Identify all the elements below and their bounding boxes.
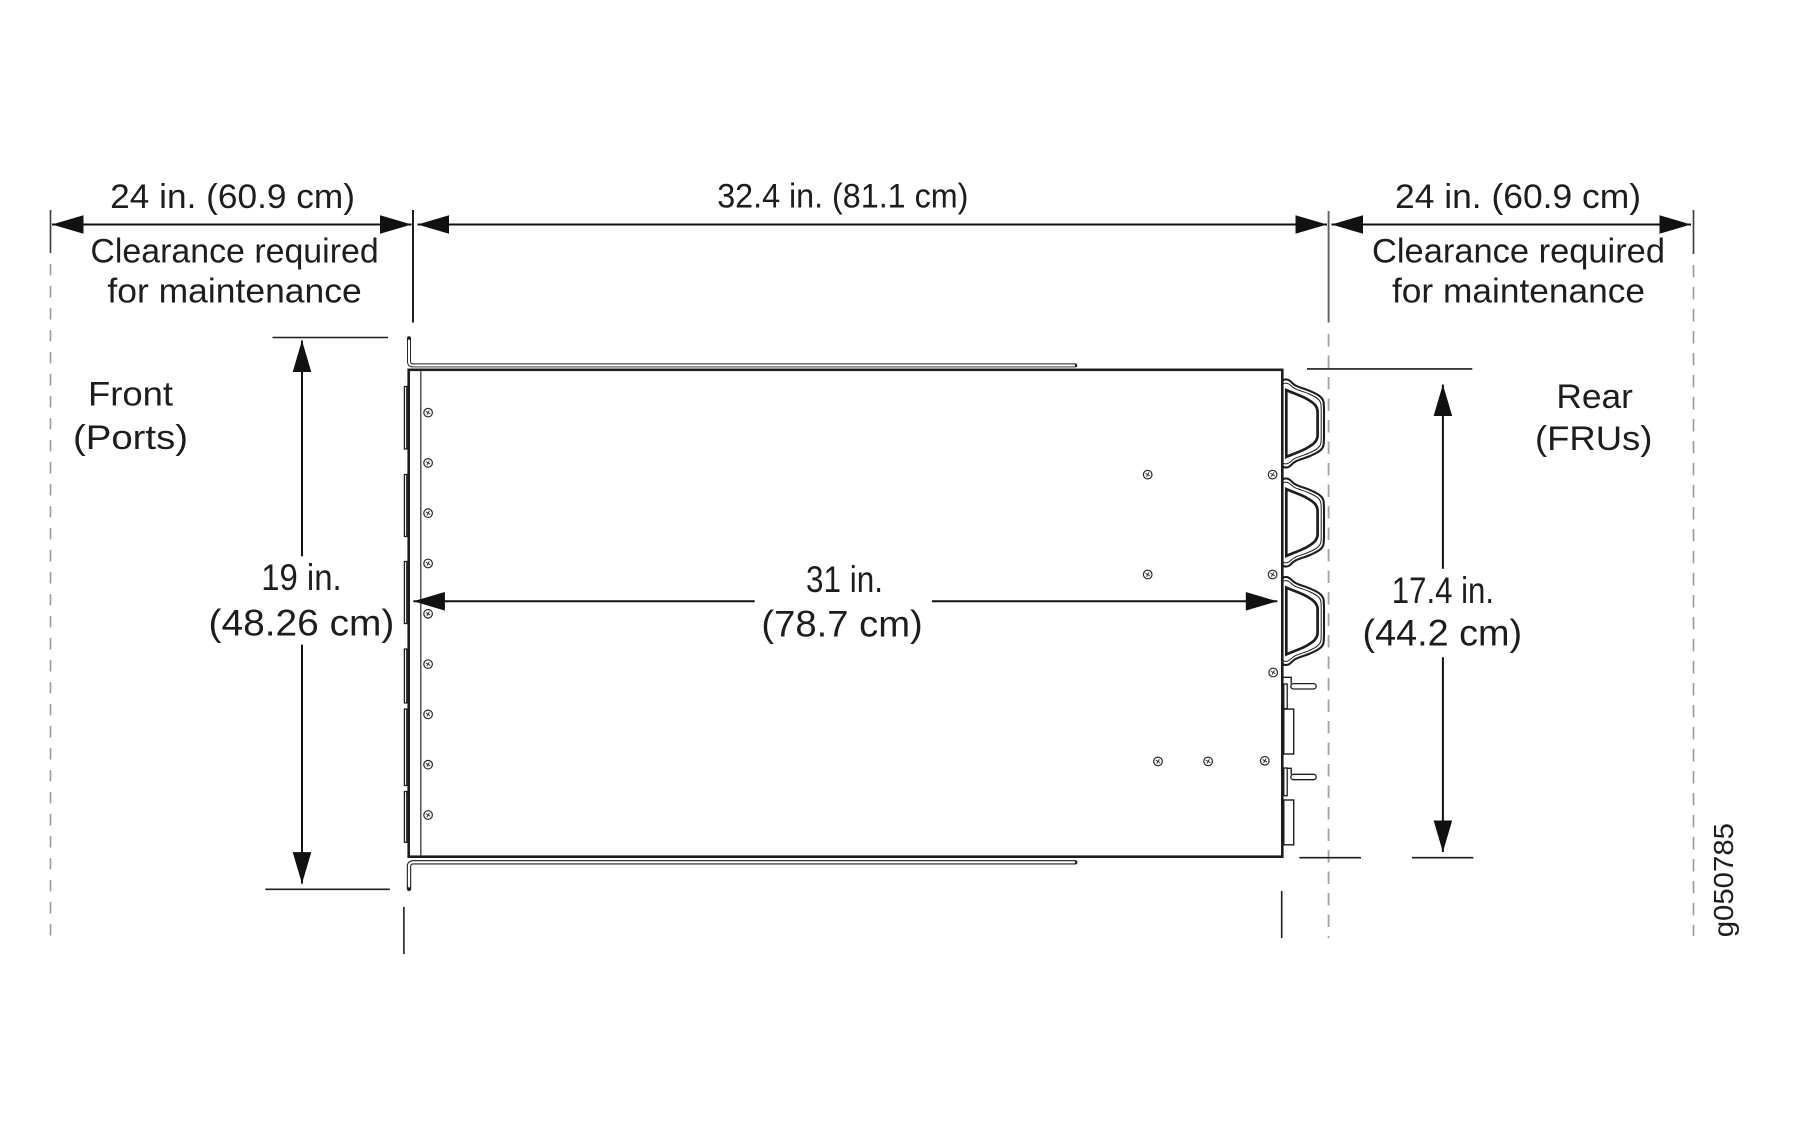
svg-text:g050785: g050785 — [1708, 823, 1739, 937]
svg-text:(44.2 cm): (44.2 cm) — [1363, 612, 1523, 653]
svg-text:32.4 in. (81.1 cm): 32.4 in. (81.1 cm) — [717, 178, 968, 216]
svg-text:24 in. (60.9 cm): 24 in. (60.9 cm) — [1395, 178, 1641, 216]
svg-text:Clearance required: Clearance required — [90, 233, 378, 271]
svg-text:(FRUs): (FRUs) — [1535, 420, 1652, 458]
svg-text:19 in.: 19 in. — [261, 557, 342, 598]
svg-text:(Ports): (Ports) — [73, 419, 188, 457]
svg-text:(48.26 cm): (48.26 cm) — [209, 602, 395, 643]
svg-text:Clearance required: Clearance required — [1372, 233, 1665, 271]
svg-text:31 in.: 31 in. — [806, 559, 883, 600]
svg-text:Front: Front — [88, 376, 174, 414]
svg-text:Rear: Rear — [1556, 378, 1633, 416]
svg-text:17.4 in.: 17.4 in. — [1392, 570, 1494, 611]
svg-text:for maintenance: for maintenance — [107, 272, 361, 310]
svg-text:24 in. (60.9 cm): 24 in. (60.9 cm) — [110, 178, 355, 216]
svg-text:for maintenance: for maintenance — [1392, 272, 1645, 310]
svg-text:(78.7 cm): (78.7 cm) — [761, 604, 922, 645]
